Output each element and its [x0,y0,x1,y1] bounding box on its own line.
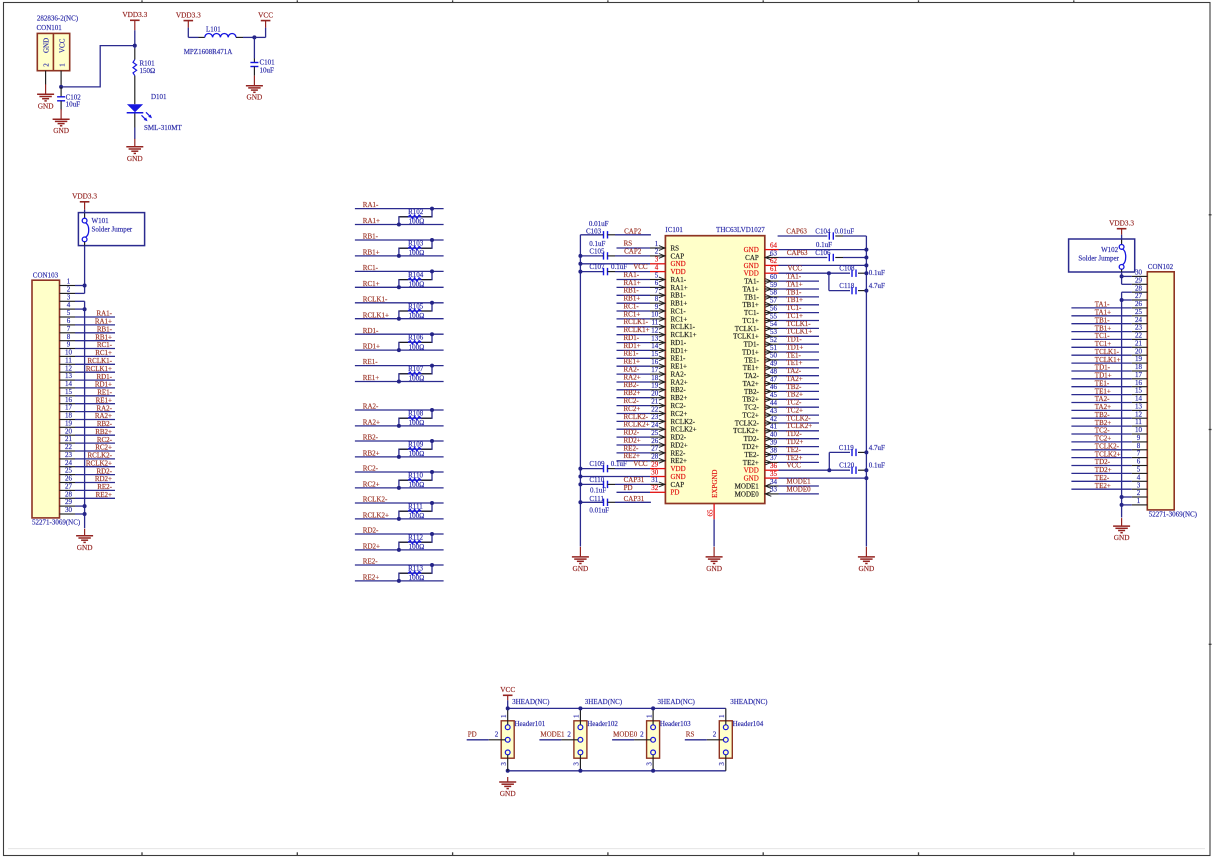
svg-text:R110: R110 [408,472,423,480]
IC101 pin 6 RA1+ [650,279,688,292]
svg-text:24: 24 [65,459,73,467]
IC101 pin 43 TC2+ [742,407,778,420]
ground [706,547,723,573]
svg-text:10uF: 10uF [260,66,275,74]
net label CAP2 [624,228,642,236]
svg-text:6: 6 [67,317,71,325]
pin 24 of CON103 net RCLK2+ [60,459,116,468]
wire node to C101 [253,37,255,62]
pin 14 of CON102 net TA2- [1071,395,1147,404]
svg-text:RD2+: RD2+ [363,543,380,551]
svg-text:RCLK2+: RCLK2+ [363,512,389,520]
svg-text:TCLK2-: TCLK2- [1095,443,1120,451]
svg-text:CON102: CON102 [1148,263,1174,271]
pin 22 of CON103 net RC2+ [60,443,116,452]
svg-text:C110: C110 [589,476,604,484]
IC101 pin 21 RC2- [650,397,686,410]
svg-text:10uF: 10uF [66,101,81,109]
svg-text:GND: GND [38,101,54,110]
svg-text:21: 21 [65,435,73,443]
svg-text:RCLK1+: RCLK1+ [671,331,697,339]
svg-text:TB2+: TB2+ [787,391,803,399]
svg-text:RD2+: RD2+ [671,441,688,449]
IC101 pin 39 TD2+ [742,438,778,451]
svg-text:16: 16 [651,358,659,366]
svg-text:3HEAD(NC): 3HEAD(NC) [658,698,696,706]
net label TA1+ [787,280,803,288]
wire W101 to CON103 pins 1-2 [84,242,86,294]
svg-text:VDD3.3: VDD3.3 [1109,219,1134,228]
pin 17 of CON102 net TD1+ [1071,371,1147,380]
svg-text:RA2+: RA2+ [363,419,380,427]
IC101 pin 60 TA1- [744,273,778,286]
net label PD [624,484,633,492]
junction at CON102 pin 2 [1120,495,1124,499]
wire net RC1+ to IC101 pin 10 [617,318,651,320]
wire net RA2- [355,409,444,411]
svg-text:22: 22 [651,405,659,413]
svg-text:TB2-: TB2- [1095,411,1110,419]
wire net RD2- to IC101 pin 25 [617,436,651,438]
IC101 pin 65 EXPGND [707,504,715,520]
svg-text:Header104: Header104 [733,720,764,728]
IC101 pin 64 GND [744,241,779,254]
junction at CON103 pin 1 [83,284,87,288]
svg-text:R104: R104 [408,271,424,279]
svg-text:RE2+: RE2+ [96,491,112,499]
svg-text:3: 3 [645,762,653,766]
svg-text:TB1+: TB1+ [787,296,803,304]
svg-text:VCC: VCC [788,265,803,273]
pin 9 of CON102 net TC2+ [1071,434,1147,443]
wire net RC1- [355,270,444,272]
svg-text:41: 41 [770,423,778,431]
svg-text:12: 12 [65,364,73,372]
wire net RE2+ to IC101 pin 28 [617,460,651,462]
junction RA2- / R108 [430,408,434,412]
svg-text:TE2-: TE2- [1095,474,1110,482]
svg-text:27: 27 [651,445,659,453]
svg-text:RA2+: RA2+ [624,373,641,381]
wire GND net CON103 pins 3-4-29-30 [84,301,86,528]
svg-text:2: 2 [495,730,499,738]
pin 20 of CON102 net TCLK1- [1071,347,1147,356]
resistor R105 100ohm [399,302,432,320]
svg-text:VCC: VCC [787,462,802,470]
wire net RE1- to IC101 pin 15 [617,357,651,359]
svg-text:25: 25 [1135,308,1143,316]
svg-text:RC1+: RC1+ [624,310,641,318]
wire node to VCC [254,28,265,38]
wire net TB1- from IC101 pin 58 [779,296,820,298]
svg-text:C106: C106 [815,249,831,257]
wire net RA2+ to IC101 pin 18 [617,381,651,383]
junction at CON103 pin 30 [83,512,87,516]
net label TB2+ [787,391,803,399]
svg-text:30: 30 [1135,269,1143,277]
pin 28 of CON103 net RE2+ [60,490,116,499]
Header104 pin 1 [718,708,726,724]
svg-text:TCLK2+: TCLK2+ [1095,450,1121,458]
wire net TD2+ from IC101 pin 39 [779,446,820,448]
resistor R104 100ohm [399,271,432,289]
net label RCLK1+ [624,326,650,334]
IC101 pin 17 RA2- [650,366,687,379]
IC101 pin 8 RB1+ [650,295,687,308]
svg-text:TC1-: TC1- [1095,332,1110,340]
svg-text:RCLK1+: RCLK1+ [363,311,389,319]
pin 24 of CON102 net TB1- [1071,316,1147,325]
svg-text:4.7uF: 4.7uF [869,282,885,290]
svg-text:TD2-: TD2- [787,430,803,438]
svg-text:22: 22 [65,443,73,451]
svg-text:52271-3069(NC): 52271-3069(NC) [32,519,81,527]
pin 26 of CON102 net TA1- [1071,300,1147,309]
resistor R109 100ohm [399,441,432,459]
junction at CON103 pin 29 [83,504,87,508]
svg-text:52271-3069(NC): 52271-3069(NC) [1149,511,1198,519]
svg-text:RE1-: RE1- [97,389,112,397]
svg-text:RA2+: RA2+ [671,378,688,386]
IC101 pin 52 TD1- [744,336,779,349]
Header102 pin 3 [573,755,581,771]
pin 13 of CON102 net TA2+ [1071,403,1147,412]
pin 26 of CON103 net RD2+ [60,475,116,484]
junction node VCC/C102 [59,85,63,89]
wire net MODE0 from pin 33 [779,493,819,495]
net label RD1+ [363,343,380,351]
svg-text:44: 44 [770,399,778,407]
svg-text:RB2+: RB2+ [624,389,641,397]
svg-text:52: 52 [770,336,778,344]
net label CAP31 [624,495,645,503]
wire net RE1- [355,365,444,367]
junction right rail pin 64 row [864,248,868,252]
wire L101 to node [236,36,254,38]
IC101 pin 61 VDD [744,265,779,278]
svg-text:TB2+: TB2+ [1095,419,1111,427]
svg-text:TA2+: TA2+ [1095,403,1111,411]
IC101 pin 46 TB2- [744,383,778,396]
ground [499,777,516,798]
junction RA1+ / R102 [397,223,401,227]
net label RA2+ [624,373,641,381]
svg-text:40: 40 [770,431,778,439]
wire pin 64 to rail [779,249,867,251]
svg-text:11: 11 [65,356,72,364]
wire right GND rail [865,236,867,547]
svg-text:RC2+: RC2+ [671,410,688,418]
svg-text:GND: GND [77,543,93,552]
wire VCC to header rail [507,700,509,708]
svg-text:TCLK1-: TCLK1- [1095,348,1120,356]
svg-text:R112: R112 [408,534,423,542]
svg-text:CON103: CON103 [33,272,59,280]
svg-text:21: 21 [1135,339,1143,347]
svg-text:GND: GND [53,126,69,135]
svg-text:37: 37 [770,454,778,462]
svg-text:2: 2 [640,730,644,738]
svg-text:59: 59 [770,281,778,289]
svg-text:3: 3 [1137,481,1141,489]
net label RC1- [363,264,379,272]
svg-text:60: 60 [770,273,778,281]
pin 2 of CON102 [1122,489,1148,497]
svg-text:100Ω: 100Ω [409,419,425,427]
svg-text:30: 30 [651,468,659,476]
svg-text:2: 2 [1137,489,1141,497]
svg-text:GND: GND [744,262,759,270]
svg-text:32: 32 [651,484,659,492]
wire net RCLK2- to IC101 pin 23 [617,420,651,422]
svg-text:1: 1 [58,63,66,67]
wire GND net CON102 pins 28-27-2-1 [1121,292,1123,517]
svg-text:VDD3.3: VDD3.3 [122,10,147,19]
pin 21 of CON103 net RC2- [60,435,116,444]
svg-text:RA1+: RA1+ [671,284,688,292]
junction right rail pin 61 row [864,271,868,275]
pin 10 of CON103 net RC1+ [60,349,116,358]
pin 30 of CON102 [1122,269,1148,277]
svg-text:39: 39 [770,438,778,446]
svg-text:RB1+: RB1+ [95,333,112,341]
wire net TE2- from IC101 pin 38 [779,454,820,456]
svg-text:0.1uF: 0.1uF [816,241,832,249]
wire net TA1- from IC101 pin 60 [779,280,820,282]
resistor R103 100ohm [399,240,432,258]
wire net RC2+ [355,487,444,489]
svg-text:15: 15 [651,350,659,358]
svg-text:CAP2: CAP2 [624,248,642,256]
svg-text:10: 10 [1135,426,1143,434]
capacitor C102 10uF [57,93,81,108]
svg-text:43: 43 [770,407,778,415]
net label TB1+ [787,296,803,304]
IC101 pin 29 VDD [650,460,686,473]
svg-text:TC2-: TC2- [787,399,802,407]
svg-text:GND: GND [744,246,759,254]
IC101 pin 18 RA2+ [650,374,688,387]
pin 7 of CON103 net RB1- [60,325,116,334]
svg-text:RB2-: RB2- [363,434,379,442]
svg-text:GND: GND [246,93,262,102]
net label RD2- [624,429,640,437]
IC101 pin 55 TC1+ [742,312,778,325]
svg-text:TA2-: TA2- [744,372,759,380]
capacitor C101 10uF [250,59,275,75]
IC101 pin 53 TCLK1+ [733,328,778,341]
junction RC2+ / R110 [397,486,401,490]
svg-text:5: 5 [67,309,71,317]
svg-text:RCLK1-: RCLK1- [671,323,696,331]
svg-text:GND: GND [706,564,722,573]
wire net TCLK1- from IC101 pin 54 [779,327,820,329]
ground [37,84,54,110]
svg-text:16: 16 [65,396,73,404]
connector CON101 282836-2(NC) [37,15,79,71]
svg-text:RA2-: RA2- [363,403,379,411]
inductor L101 MPZ1608R471A [184,25,236,56]
svg-text:RB2+: RB2+ [363,450,380,458]
svg-text:28: 28 [65,490,73,498]
junction RB2+ / R109 [397,455,401,459]
svg-text:TD1-: TD1- [787,336,803,344]
capacitor C111 0.01uF net CAP31 [580,495,651,514]
junction left rail pin 2 row [578,254,582,258]
junction top rail [506,706,510,710]
pin 4 of CON102 net TE2- [1071,473,1147,482]
svg-text:TC2+: TC2+ [787,407,803,415]
svg-text:RCLK2+: RCLK2+ [671,426,697,434]
svg-text:TA1+: TA1+ [787,280,803,288]
power VCC [258,10,273,27]
net label TCLK1+ [787,328,813,336]
svg-text:R106: R106 [408,334,424,342]
net label RC1- [624,302,640,310]
svg-text:TCLK1-: TCLK1- [787,320,812,328]
svg-text:C111: C111 [589,495,604,503]
svg-text:IC101: IC101 [665,226,683,234]
Header102 pin 1 [573,708,581,724]
svg-text:C101: C101 [260,59,276,67]
pin 11 of CON103 net RCLK1- [60,356,116,365]
wire net RS to pin 1 [617,247,651,249]
svg-text:36: 36 [770,462,778,470]
svg-text:RA2-: RA2- [96,404,112,412]
svg-text:18: 18 [651,374,659,382]
wire net RCLK1+ [355,318,444,320]
svg-text:5: 5 [1137,466,1141,474]
svg-text:Solder Jumper: Solder Jumper [92,225,133,233]
svg-text:RE2-: RE2- [97,483,112,491]
pin 1 of CON102 [1122,497,1148,505]
svg-text:TCLK2-: TCLK2- [735,419,760,427]
svg-text:RC1-: RC1- [671,307,687,315]
svg-text:VDD: VDD [744,270,759,278]
svg-text:RA1+: RA1+ [363,217,380,225]
svg-text:R105: R105 [408,302,424,310]
svg-text:RCLK2+: RCLK2+ [86,459,112,467]
wire net RD2+ [355,549,444,551]
net label TE2+ [787,454,803,462]
pin 7 of CON102 net TCLK2+ [1071,450,1147,459]
svg-text:58: 58 [770,289,778,297]
IC101 pin 49 TE1+ [743,360,779,373]
svg-text:45: 45 [770,391,778,399]
svg-text:56: 56 [770,304,778,312]
svg-text:C107: C107 [589,263,605,271]
svg-text:MODE0: MODE0 [735,490,760,498]
svg-text:9: 9 [1137,434,1141,442]
IC101 pin 48 TA2- [744,368,778,381]
net label RC1+ [363,280,380,288]
svg-text:100Ω: 100Ω [409,450,425,458]
svg-text:RE1+: RE1+ [363,374,379,382]
svg-text:14: 14 [1135,395,1143,403]
wire net RC1- to IC101 pin 9 [617,310,651,312]
svg-text:Solder Jumper: Solder Jumper [1078,254,1119,262]
connector CON102 52271-3069(NC) [1147,263,1197,518]
svg-text:100Ω: 100Ω [409,312,425,320]
net label TC2- [787,399,802,407]
svg-text:TE2+: TE2+ [743,459,759,467]
capacitor C108 0.1uF [839,265,885,278]
svg-text:TE1-: TE1- [787,351,802,359]
svg-text:7: 7 [67,325,71,333]
wire net RD1+ to IC101 pin 14 [617,349,651,351]
svg-text:VCC: VCC [58,38,66,53]
net label RE1+ [363,374,379,382]
svg-text:TC1+: TC1+ [1095,340,1111,348]
junction bottom rail [651,769,655,773]
svg-text:2: 2 [42,63,50,67]
capacitor C109 0.1uF net VCC pin 29 [580,460,650,472]
wire net RB2- [355,440,444,442]
pin 18 of CON102 net TD1- [1071,363,1147,372]
ground [858,547,875,573]
svg-text:4.7uF: 4.7uF [869,444,885,452]
svg-text:15: 15 [65,388,73,396]
svg-text:100Ω: 100Ω [409,249,425,257]
IC101 pin 5 RA1- [650,271,687,284]
IC101 pin 22 RC2+ [650,405,687,418]
svg-text:RC2-: RC2- [624,397,640,405]
pin 19 of CON102 net TCLK1+ [1071,355,1147,364]
wire net RA1+ to IC101 pin 6 [617,286,651,288]
wire net RE2- [355,564,444,566]
wire net RA1+ [355,224,444,226]
svg-text:2: 2 [713,730,717,738]
svg-text:49: 49 [770,360,778,368]
svg-text:VDD: VDD [671,268,686,276]
svg-text:RC2-: RC2- [671,402,687,410]
IC101 pin 33 MODE0 [735,486,779,499]
Header101 pin 1 [500,708,508,724]
IC101 pin 54 TCLK1- [735,320,779,333]
svg-text:L101: L101 [206,25,221,33]
net label RCLK2- [624,413,649,421]
IC101 pin 20 RB2+ [650,390,687,403]
IC U101 body THC63LVD1027 [665,226,765,503]
svg-text:RE2+: RE2+ [363,574,379,582]
net label RC2- [363,465,379,473]
svg-text:VCC: VCC [500,685,515,694]
wire net RC1+ [355,286,444,288]
svg-text:25: 25 [65,467,73,475]
Header103 pin 3 [645,755,653,771]
net label RE2- [363,558,378,566]
net label RD1- [624,334,640,342]
svg-text:22: 22 [1135,332,1143,340]
svg-text:TB2+: TB2+ [742,396,758,404]
wire VDD3.3 to W102 [1121,235,1123,245]
Header102 pin 2 net MODE1 [539,730,578,740]
svg-text:TA1+: TA1+ [743,285,759,293]
wire net TE2+ from IC101 pin 37 [779,461,820,463]
wire net RD2+ to IC101 pin 26 [617,444,651,446]
junction RC1+ / R104 [397,285,401,289]
svg-text:33: 33 [770,486,778,494]
svg-text:1: 1 [1137,497,1141,505]
svg-text:TD2+: TD2+ [1095,466,1112,474]
svg-text:RD1+: RD1+ [95,381,112,389]
svg-text:13: 13 [65,372,73,380]
svg-text:RD2-: RD2- [363,527,379,535]
svg-text:TCLK2-: TCLK2- [787,414,812,422]
wire GND rail to pin 30 [580,476,650,478]
svg-text:RCLK2-: RCLK2- [363,496,388,504]
svg-text:RB1-: RB1- [624,287,640,295]
